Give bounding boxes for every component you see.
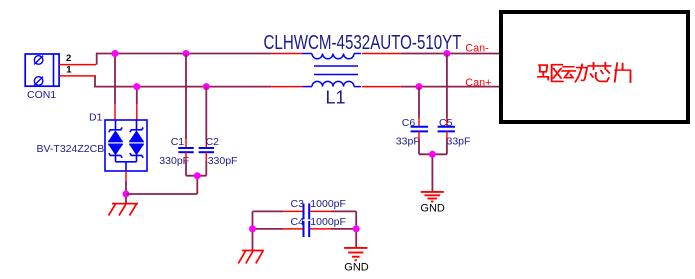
junction node C3/C4 left: [249, 225, 256, 232]
svg-text:C4: C4: [291, 216, 305, 228]
svg-text:1: 1: [66, 65, 72, 76]
wire Can- top bus maroon right: [401, 53, 501, 55]
ground GND under C5/C6: [421, 192, 444, 202]
wire C5/C6 join to GND: [419, 154, 447, 192]
svg-text:33pF: 33pF: [447, 136, 471, 148]
value 1000pF C3: [310, 198, 346, 210]
wire C1 to C2 bottom join: [186, 176, 206, 194]
wire Can+ red stub right of L1: [362, 86, 401, 88]
wire Can- red stub right of L1: [362, 53, 401, 55]
chip text 驱动芯片 (drawn strokes): [538, 63, 631, 83]
svg-text:GND: GND: [344, 262, 369, 274]
label GND bottom: [344, 262, 369, 274]
capacitor C3: [304, 203, 310, 219]
capacitor C2: [199, 148, 214, 152]
wire C4 bottom row: [253, 228, 357, 230]
svg-text:Can-: Can-: [465, 43, 489, 55]
net label Can+: [465, 77, 491, 89]
svg-text:C5: C5: [439, 117, 453, 129]
value BV-T324Z2CB: [37, 143, 105, 155]
svg-text:L1: L1: [326, 88, 346, 108]
label GND right: [420, 202, 445, 214]
svg-text:BV-T324Z2CB: BV-T324Z2CB: [37, 143, 105, 155]
junction node top bus / D1: [112, 50, 119, 57]
value CLHWCM-4532AUTO-510YT: [264, 31, 462, 54]
wire branch bottom bus to D1 pin B: [136, 87, 138, 120]
label C3: [291, 198, 305, 210]
wire CON1 pin 2 red stub: [59, 64, 96, 66]
wire CON1 pin 1 red stub: [59, 75, 96, 77]
svg-text:GND: GND: [420, 202, 445, 214]
label CON1: [27, 89, 56, 101]
pin number 1: [66, 65, 72, 76]
wire C1 bottom: [185, 152, 187, 176]
wire branch top bus to C5: [446, 54, 448, 127]
wire Can+ red stub left of L1: [271, 86, 303, 88]
svg-text:33pF: 33pF: [396, 136, 420, 148]
connector CON1: [25, 54, 59, 86]
junction node bottom bus / C6: [416, 83, 423, 90]
svg-text:1000pF: 1000pF: [310, 216, 346, 228]
label C4: [291, 216, 305, 228]
svg-text:2: 2: [66, 53, 71, 64]
wire branch bottom bus to C6: [418, 87, 420, 127]
capacitor C6: [411, 127, 428, 132]
wire ground node to C1/C2: [126, 193, 197, 195]
pin number 2: [66, 53, 71, 64]
junction node top bus / C5: [443, 50, 450, 57]
chassis ground bottom left: [238, 251, 264, 264]
junction node C1/C2: [194, 172, 201, 179]
label L1: [326, 88, 346, 108]
driver chip block: [501, 12, 688, 122]
svg-text:C2: C2: [206, 136, 220, 148]
capacitor C4: [304, 221, 310, 237]
wire Can+ bottom bus maroon right: [401, 86, 501, 88]
value 1000pF C4: [310, 216, 346, 228]
value 330pF C1: [159, 155, 189, 167]
wire left vertical C3/C4 to chassis: [252, 211, 254, 250]
wire branch bottom bus to C2: [205, 87, 207, 148]
junction node D1 ground: [123, 191, 130, 198]
junction node bottom bus / D1: [133, 83, 140, 90]
wire C3 top: [253, 210, 357, 212]
wire C5 bottom: [446, 131, 448, 154]
net label Can-: [465, 43, 489, 55]
svg-text:1000pF: 1000pF: [310, 198, 346, 210]
junction node C3/C4 right: [353, 225, 360, 232]
chassis ground under D1: [109, 204, 139, 216]
svg-text:CLHWCM-4532AUTO-510YT: CLHWCM-4532AUTO-510YT: [264, 31, 462, 54]
wire Can+ bottom bus maroon left: [95, 76, 271, 87]
wire branch top bus to D1 pin A: [114, 54, 116, 121]
capacitor C5: [438, 127, 455, 132]
wire C2 bottom: [205, 152, 207, 176]
junction node C5/C6: [429, 151, 436, 158]
svg-text:CON1: CON1: [27, 89, 56, 101]
svg-text:C1: C1: [171, 136, 185, 148]
label C5: [439, 117, 453, 129]
svg-text:C6: C6: [402, 117, 416, 129]
svg-text:330pF: 330pF: [159, 155, 189, 167]
value 330pF C2: [208, 155, 238, 167]
ground GND bottom: [344, 248, 367, 260]
junction node top bus / C1: [183, 50, 190, 57]
wire Can- top bus maroon left: [97, 54, 271, 65]
common mode choke L1: [302, 54, 361, 87]
label D1: [89, 112, 103, 124]
value 33pF C6: [396, 136, 420, 148]
svg-text:C3: C3: [291, 198, 305, 210]
wire C6 bottom: [418, 131, 420, 154]
svg-text:330pF: 330pF: [208, 155, 238, 167]
wire Can- red stub left of L1: [271, 53, 302, 55]
svg-text:Can+: Can+: [465, 77, 491, 89]
value 33pF C5: [447, 136, 471, 148]
wire right vertical C3/C4 to GND: [355, 211, 357, 248]
junction node bottom bus / C2: [203, 83, 210, 90]
wire branch top bus to C1: [185, 54, 187, 149]
capacitor C1: [178, 148, 193, 152]
label C6: [402, 117, 416, 129]
svg-text:D1: D1: [89, 112, 103, 124]
wire D1 bottom pin: [125, 171, 127, 204]
label C1: [171, 136, 185, 148]
label C2: [206, 136, 220, 148]
TVS diode array D1: [105, 120, 147, 171]
